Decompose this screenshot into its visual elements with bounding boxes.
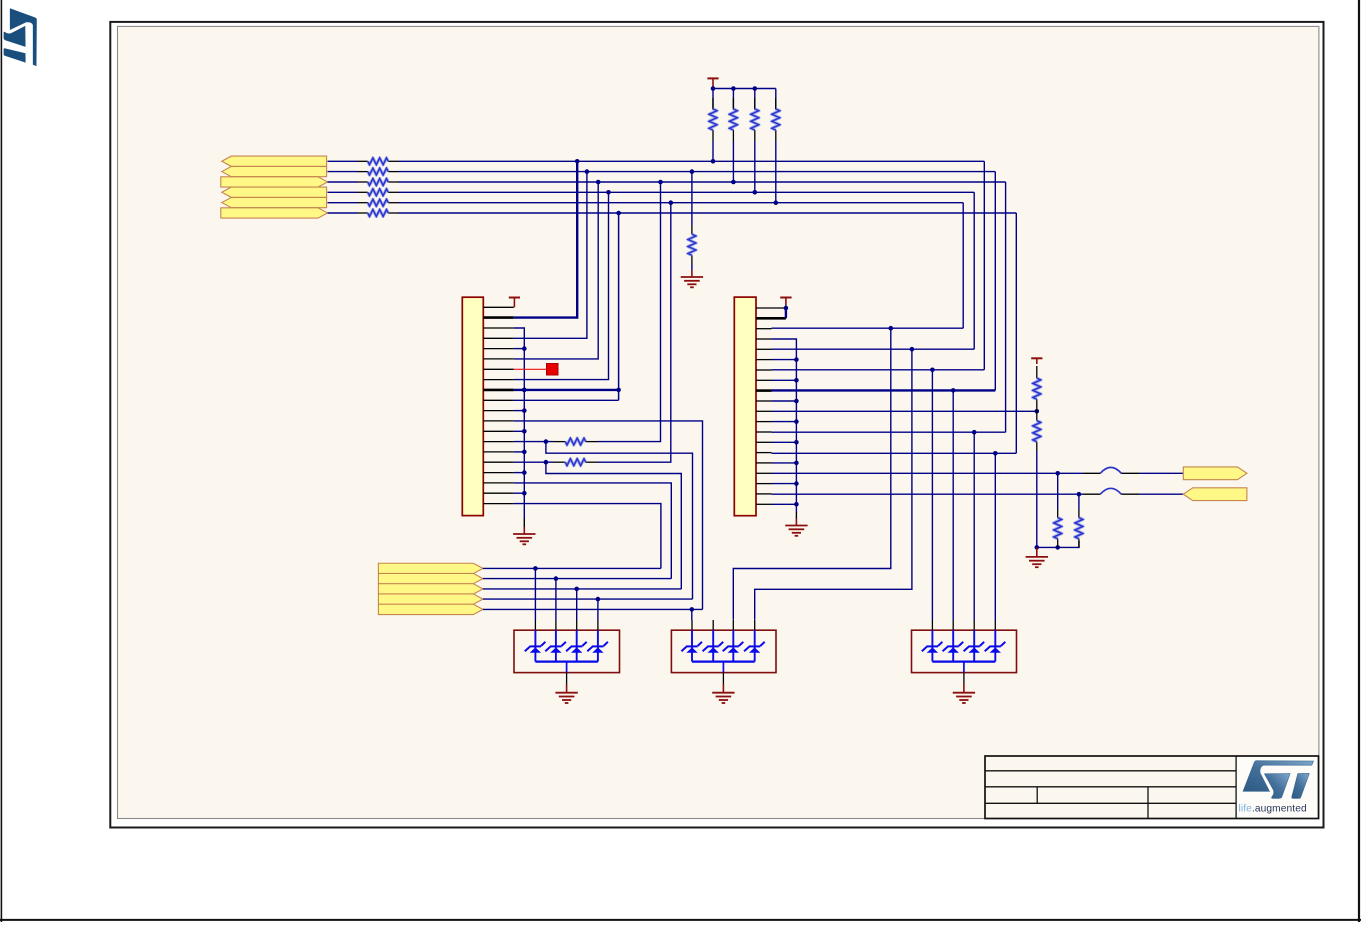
resistor R15 series row5	[358, 199, 399, 206]
junction rail pin19	[522, 491, 527, 496]
wire pin16 tap to lower row3	[546, 462, 681, 589]
ESD array D1 box	[514, 630, 620, 672]
wire R53 upper lead	[1057, 473, 1059, 509]
wire branch to D3 box column x=995.3	[994, 453, 996, 620]
resistor R53 bead row1 termination	[1054, 509, 1062, 547]
J2 flag row1 (points right)	[378, 563, 483, 573]
junction rail pin9	[522, 388, 527, 393]
junction U2 rail pin12	[794, 419, 799, 424]
junction lower row3 to ESD	[574, 587, 579, 592]
wire U2 pin13 to row3 column	[772, 431, 1006, 433]
U2 pin 13	[756, 431, 772, 433]
junction row4 left drop	[606, 190, 611, 195]
U1 pin 12	[483, 420, 514, 422]
viewport left edge line	[0, 0, 2, 922]
wire bus row4 horizontal	[399, 191, 975, 193]
wire row1 flag to resistor	[328, 160, 358, 162]
title block h-line 3	[985, 802, 1236, 804]
ground divider rail	[1026, 547, 1048, 567]
title block h-line 2	[985, 786, 1236, 788]
junction U2 rail pin18	[794, 481, 799, 486]
junction divider mid	[1035, 409, 1040, 414]
J1 flag row4 (points left)	[222, 187, 327, 197]
junction pin7 branch	[930, 368, 935, 373]
wire bus row6 horizontal	[399, 212, 1017, 214]
wire U2 pin18 to rail	[772, 483, 797, 485]
U2 pin 10	[756, 400, 772, 402]
U2 pin 2	[756, 317, 786, 320]
ST logo title block	[1243, 761, 1314, 799]
diode D3.4 (TVS)	[985, 642, 1006, 653]
wire bead L1 to flag	[1139, 472, 1183, 474]
U2 pin 16	[756, 462, 772, 464]
power VCC symbol divider	[1031, 358, 1042, 364]
inductor bead L1	[1100, 467, 1121, 473]
resistor R24 pull-up	[772, 98, 780, 141]
D1 pin lead 1	[534, 620, 536, 630]
wire U2 pin19 bead row2	[772, 493, 1084, 495]
D1 pin lead 4	[597, 620, 599, 630]
J1 flag row5 (points left)	[222, 197, 327, 207]
wire bead L2 right lead	[1121, 493, 1139, 495]
junction bead row1 tap	[1055, 471, 1060, 476]
diode D2.2 (TVS)	[723, 642, 744, 653]
U2 pin 7	[756, 369, 772, 371]
D1 pin lead 3	[576, 620, 578, 630]
U1 pin 19	[483, 492, 514, 494]
wire U2 pin5 to row4 column	[772, 348, 975, 350]
wire R41 to row3 column	[598, 182, 661, 442]
wire lower row3	[483, 588, 681, 590]
wire U2 pin6 to rail	[772, 359, 797, 361]
wire row5 flag to resistor	[328, 202, 358, 204]
junction col1-row1	[711, 159, 716, 164]
wire U1 pin9 thick to row6 column	[514, 389, 619, 391]
D3 diode 2 wire	[952, 630, 954, 661]
U2 pin 6	[756, 359, 772, 361]
U1 pin 20	[483, 503, 514, 505]
U1 pin 17	[483, 472, 514, 474]
power VCC symbol U1 pin1	[509, 298, 520, 308]
U1 pin 6	[483, 358, 514, 360]
wire U1 pin6 up to row	[514, 182, 598, 359]
junction R53 gnd rail	[1055, 545, 1060, 550]
wire U1 pin10	[514, 399, 619, 401]
wire pull-up column 4 lower	[775, 141, 777, 203]
wire U1 pin13 to rail	[514, 430, 525, 432]
wire U2 pin12 to rail	[772, 421, 797, 423]
junction rail pin17	[522, 470, 527, 475]
wire bus row1 horizontal	[399, 160, 985, 162]
junction rail pin11	[522, 408, 527, 413]
J2 flag row3 (points right)	[378, 584, 483, 594]
wire U1 pin16 to R42	[514, 461, 553, 463]
U1 pin 16	[483, 461, 514, 463]
resistor R14 series row4	[358, 189, 399, 196]
wire R54 upper lead	[1078, 494, 1080, 509]
D2 pin lead 3	[754, 620, 756, 630]
U1 pin 7	[483, 368, 514, 370]
wire lower row2	[483, 578, 671, 580]
diode D2.x (TVS)	[703, 642, 724, 653]
ground D3	[953, 684, 975, 703]
wire ground rail right	[1037, 541, 1079, 547]
junction U2 rail pin20	[794, 502, 799, 507]
wire row4 flag to resistor	[328, 191, 358, 193]
junction col4-row5	[774, 200, 779, 205]
ground U1 rail	[513, 527, 535, 544]
wire U2 pin11 to divider	[772, 410, 1037, 412]
junction U2 rail pin6	[794, 357, 799, 362]
U1 pin 4	[483, 337, 514, 339]
U2 pin 4	[756, 338, 772, 340]
wire U1 pin19 to rail	[514, 492, 525, 494]
flag OUT1 (points right)	[1183, 467, 1247, 480]
wire pin14 tap to lower row4	[546, 442, 693, 599]
wire U2 pin7 to row1 column	[772, 369, 985, 371]
J1 flag row2 (points left)	[222, 166, 327, 176]
wire branch to D2 box diode3	[733, 328, 891, 620]
junction bus col3	[753, 86, 758, 91]
U2 pin 1	[756, 307, 786, 309]
wire branch to D3 box column x=974.2	[973, 432, 975, 620]
wire lower drop x=535.4	[534, 568, 536, 620]
wire rail to ground lead	[523, 519, 525, 527]
wire row1 right drop	[983, 161, 985, 369]
wire U2 pin16 to rail	[772, 462, 797, 464]
wire branch to D2 box diode4	[755, 349, 912, 620]
wire row3 flag to resistor	[328, 181, 358, 183]
wire row5 right drop	[962, 203, 964, 329]
U2 pin 12	[756, 421, 772, 423]
title block v-divider logo cell	[1235, 756, 1237, 819]
wire U1 pin12 to lower row5 column	[514, 421, 703, 610]
junction row5 second drop	[669, 200, 674, 205]
viewport right edge line	[1358, 0, 1360, 922]
resistor R51 divider upper	[1033, 366, 1041, 411]
title block outline	[985, 756, 1319, 819]
wire bus row5 horizontal	[399, 202, 964, 204]
resistor R23 pull-up	[751, 98, 759, 141]
junction VCC stem	[711, 86, 716, 91]
junction pin3 branch	[889, 326, 894, 331]
D2 diode 1 wire	[691, 630, 693, 661]
D1 diode 1 wire	[534, 630, 536, 661]
junction col3-row4	[753, 190, 758, 195]
diode D1.3 (TVS)	[566, 642, 587, 653]
wire pull-up column 3	[754, 89, 756, 110]
diode D3.3 (TVS)	[964, 642, 985, 653]
D1 diode 4 wire	[597, 630, 599, 661]
junction U2 rail pin8	[794, 378, 799, 383]
junction U2 pin1/pin2	[784, 306, 789, 311]
title block v-divider 3	[1036, 787, 1038, 804]
wire U1 pin11 to rail	[514, 410, 525, 412]
U2 pin 18	[756, 483, 772, 485]
diode D3.1 (TVS)	[922, 642, 943, 653]
wire U1 pin5 to rail	[514, 348, 525, 350]
viewport bottom edge line	[0, 919, 1361, 921]
junction bead row2 tap	[1077, 492, 1082, 497]
J1 flag row6 (output, points right)	[221, 208, 328, 218]
wire pull-up column 1	[712, 89, 714, 110]
wire lower drop x=555.9	[555, 579, 557, 620]
U1 pin 18	[483, 482, 514, 484]
resistor R22 pull-up	[730, 98, 738, 141]
wire U1 pin8 up to row	[514, 192, 609, 379]
wire row6 flag to resistor	[328, 212, 358, 214]
junction pin15 branch	[993, 451, 998, 456]
D3 diode 3 wire	[973, 630, 975, 661]
D1 pin lead 2	[555, 620, 557, 630]
junction rail pin13	[522, 429, 527, 434]
U2 pin 11	[756, 410, 772, 412]
U2 pin 20	[756, 503, 772, 505]
D2 diode 2 wire	[732, 630, 734, 661]
diode D1.1 (TVS)	[525, 642, 546, 653]
U2 pin 14	[756, 441, 772, 443]
wire U2 pin14 to rail	[772, 441, 797, 443]
junction lower row5 to ESD	[690, 607, 695, 612]
U1 pin 5	[483, 348, 514, 350]
wire row3 right drop	[1005, 182, 1007, 432]
U1 pin 2	[483, 316, 514, 319]
junction pin14 tap	[544, 439, 549, 444]
wire U1 pin9 to rail	[514, 389, 525, 391]
junction pin16 tap	[544, 460, 549, 465]
D2 pin lead 2	[732, 620, 734, 630]
junction pin9 branch	[951, 388, 956, 393]
wire U2 pin2 riser	[785, 308, 787, 318]
wire U1 pin14 to R41	[514, 441, 553, 443]
junction row3 left drop	[596, 180, 601, 185]
wire pull-up column 2	[732, 89, 734, 110]
U2 pin 5	[756, 348, 772, 350]
wire U2 pin9 to row2 column	[772, 389, 996, 391]
D3 pin lead 3	[973, 620, 975, 630]
IC U1 connector body	[462, 297, 483, 515]
junction row3 second drop	[658, 180, 663, 185]
wire U2 pin3 to row5 column	[772, 327, 964, 329]
diode D2.1 (TVS)	[681, 642, 702, 653]
wire U1 pin18 to lower row2	[514, 483, 672, 579]
junction lower row2 to ESD	[554, 576, 559, 581]
wire U2 rail ground lead	[795, 512, 797, 519]
diode D2.3 (TVS)	[744, 642, 765, 653]
D3 common bus	[932, 660, 995, 662]
junction U2 rail pin10	[794, 399, 799, 404]
J2 flag row2 (points right)	[378, 573, 483, 583]
wire U1 pin3 ground rail	[514, 328, 525, 519]
D1 diode 3 wire	[576, 630, 578, 661]
sheet inner border frame	[118, 26, 1319, 818]
ground U2 rail	[785, 519, 807, 536]
wire U2 pin10 to rail	[772, 400, 797, 402]
IC U2 connector body	[734, 297, 756, 516]
resistor R16 series row6	[358, 210, 399, 217]
sheet outer border frame	[110, 22, 1323, 828]
junction divider gnd rail	[1035, 545, 1040, 550]
title block h-line 1	[985, 770, 1236, 772]
D2 diode 3 wire	[754, 630, 756, 661]
U2 pin 3	[756, 328, 772, 330]
diode D3.2 (TVS)	[943, 642, 964, 653]
wire bead L1 right lead	[1121, 472, 1139, 474]
diode D1.2 (TVS)	[545, 642, 566, 653]
junction col2-row3	[731, 180, 736, 185]
junction row1 left drop	[575, 159, 580, 164]
junction rail pin9 cross	[522, 388, 527, 393]
power VCC symbol U2 pin1	[780, 298, 791, 309]
J2 flag row4 (points right)	[378, 594, 483, 604]
U1 pin 1	[483, 306, 514, 308]
wire lower drop x=576.7	[576, 589, 578, 620]
wire bead L2 to flag	[1139, 493, 1183, 495]
title block v-divider 2	[1147, 787, 1149, 819]
wire lower row5 drop to D2	[691, 609, 693, 620]
junction row2 pulldown	[690, 169, 695, 174]
resistor R21 pull-up	[709, 98, 717, 141]
wire U1 pin7 red stub	[514, 368, 547, 370]
resistor R12 series row2	[358, 168, 399, 175]
wire bead L2 left lead	[1084, 493, 1101, 495]
wire U2 pin17 bead row1	[772, 472, 1084, 474]
junction lower row4 to ESD	[596, 597, 601, 602]
wire pull-up column 2 lower	[732, 141, 734, 182]
U1 pin 13	[483, 430, 514, 432]
power VCC symbol top bank	[707, 78, 718, 88]
resistor R42 on pin16 line	[553, 459, 598, 466]
J1 flag row3 (output, points right)	[221, 177, 328, 187]
U2 pin 15	[756, 452, 772, 454]
junction U2 rail pin14	[794, 440, 799, 445]
wire U2 pin8 to rail	[772, 379, 797, 381]
U1 pin 15	[483, 451, 514, 453]
U2 pin 19	[756, 493, 772, 495]
wire row4 right drop	[973, 192, 975, 349]
junction bus col2	[731, 86, 736, 91]
D3 pin lead 2	[952, 620, 954, 630]
wire bus row2 horizontal	[399, 171, 996, 173]
wire pull-up column 3 lower	[754, 141, 756, 192]
U2 pin 9	[756, 389, 772, 392]
D2 common bus	[692, 660, 755, 662]
wire U1 pin4 up to row	[514, 172, 587, 339]
J1 flag row1 (points left)	[222, 156, 327, 166]
resistor R52 divider lower	[1033, 411, 1041, 451]
D1 common bus	[535, 660, 598, 662]
D1 diode 2 wire	[555, 630, 557, 661]
wire divider to ground rail	[1036, 451, 1038, 547]
U1 pin 11	[483, 410, 514, 412]
J2 flag row5 (points right)	[378, 604, 483, 614]
resistor R31 row2 pulldown	[688, 225, 696, 265]
resistor R11 series row1	[358, 158, 399, 165]
U1 pin 8	[483, 379, 514, 381]
junction lower row1 to ESD	[533, 566, 538, 571]
U2 pin 8	[756, 379, 772, 381]
wire U2 pin15 to row6 column	[772, 452, 1017, 454]
wire pull-up column 4	[775, 89, 777, 110]
ESD array D2 box	[671, 630, 776, 672]
wire U1 pin15 to rail	[514, 451, 525, 453]
wire U1 pin20 to lower row1	[514, 504, 661, 569]
ESD array D3 box	[912, 630, 1017, 672]
ground D1	[555, 684, 577, 703]
wire branch to D3 box column x=953.2	[952, 390, 954, 620]
junction U2 rail pin16	[794, 461, 799, 466]
wire lower row5	[483, 608, 703, 610]
wire row6 left drop	[618, 213, 620, 400]
wire U2 pin4 ground rail	[772, 339, 797, 512]
D3 pin lead 1	[931, 620, 933, 630]
svg-text:life.augmented: life.augmented	[1239, 803, 1307, 814]
junction row2 left drop	[585, 169, 590, 174]
junction rail pin5	[522, 346, 527, 351]
no-connect red square marker	[547, 364, 559, 376]
wire row2 flag to resistor	[328, 171, 358, 173]
U1 pin 9	[483, 389, 514, 392]
D2 ground stem	[722, 662, 724, 673]
wire bus row3 horizontal	[399, 181, 1006, 183]
flag OUT2 (points left)	[1183, 488, 1247, 501]
U1 pin 10	[483, 399, 514, 401]
diode D1.4 (TVS)	[587, 642, 608, 653]
wire branch to D3 box column x=932.4	[931, 370, 933, 620]
wire U1 pin17 to rail	[514, 472, 525, 474]
ground D2	[712, 684, 734, 703]
D1 ground stem	[566, 662, 568, 673]
wire VCC bus top bank	[713, 88, 776, 90]
U2 pin 17	[756, 472, 772, 474]
ST corner logo (rotated monogram)	[4, 8, 37, 66]
wire bead L1 left lead	[1084, 472, 1101, 474]
junction pin5 branch	[910, 347, 915, 352]
resistor R13 series row3	[358, 179, 399, 186]
resistor R54 bead row2 termination	[1075, 509, 1083, 547]
wire row6 right drop	[1015, 213, 1017, 453]
D3 ground stem	[963, 662, 965, 673]
junction rail pin15	[522, 450, 527, 455]
wire U2 pin20 to rail	[772, 503, 797, 505]
wire lower drop x=597.9	[597, 599, 599, 620]
D3 diode 4 wire	[994, 630, 996, 661]
resistor R41 on pin14 line	[553, 438, 598, 445]
D2 pin lead 1	[691, 620, 693, 630]
title block logo cell background	[1236, 756, 1318, 819]
D2 free stub wire	[712, 630, 714, 661]
inductor bead L2	[1100, 488, 1121, 494]
junction row6 left drop	[616, 211, 621, 216]
wire row2 pulldown drop	[691, 172, 693, 225]
wire pulldown to ground	[691, 265, 693, 271]
ground pulldown R31	[681, 270, 703, 287]
U1 pin 14	[483, 441, 514, 443]
junction pin13 branch	[972, 430, 977, 435]
D3 diode 1 wire	[931, 630, 933, 661]
wire U1 pin2 to row1	[514, 161, 577, 317]
wire lower row4	[483, 598, 693, 600]
U1 pin 3	[483, 327, 514, 329]
D3 pin lead 4	[994, 620, 996, 630]
D2 free stub lead	[712, 620, 714, 630]
wire row2 right drop	[994, 172, 996, 391]
wire lower row1	[483, 567, 661, 569]
wire R42 to row5 column	[598, 203, 671, 463]
wire pull-up column 1 lower	[712, 141, 714, 161]
junction pin9/pin10 column	[616, 388, 621, 393]
